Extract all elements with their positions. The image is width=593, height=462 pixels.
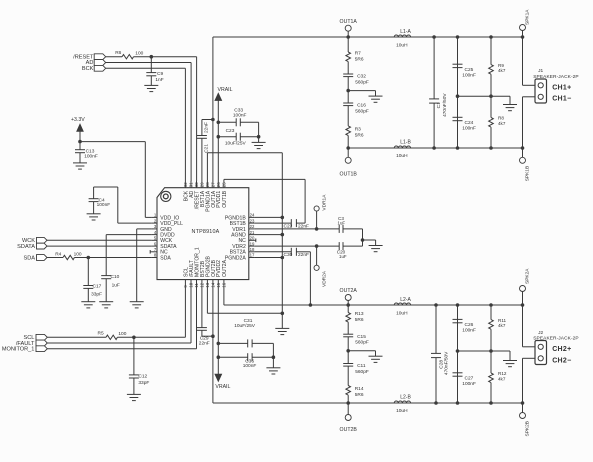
svg-text:10uH: 10uH <box>396 311 408 317</box>
svg-text:C1: C1 <box>436 102 442 108</box>
svg-text:R6: R6 <box>115 50 121 56</box>
svg-text:OUT1B: OUT1B <box>222 190 228 208</box>
svg-text:560pF: 560pF <box>355 369 369 375</box>
svg-text:C9: C9 <box>157 71 163 77</box>
svg-text:1uF: 1uF <box>339 254 347 259</box>
svg-text:100nF: 100nF <box>84 154 98 160</box>
svg-text:10uF/25V: 10uF/25V <box>225 141 247 147</box>
svg-text:100nF: 100nF <box>462 73 476 79</box>
svg-text:25: 25 <box>222 182 227 187</box>
svg-text:C17: C17 <box>93 284 102 290</box>
svg-text:4k7: 4k7 <box>498 376 506 381</box>
svg-text:C26: C26 <box>465 322 474 328</box>
svg-text:PGND2A: PGND2A <box>225 255 247 261</box>
svg-text:C27: C27 <box>465 375 474 381</box>
svg-text:100nF: 100nF <box>233 112 247 118</box>
svg-text:OUT1B: OUT1B <box>340 172 358 178</box>
svg-text:L2-B: L2-B <box>400 395 411 401</box>
svg-text:SPEAKER-JACK-2P: SPEAKER-JACK-2P <box>533 336 579 342</box>
svg-text:C25: C25 <box>465 67 474 73</box>
svg-text:R14: R14 <box>355 386 364 392</box>
svg-text:VDR2A: VDR2A <box>322 270 328 287</box>
svg-text:L2-A: L2-A <box>400 297 411 303</box>
svg-text:10uF/25V: 10uF/25V <box>234 323 256 329</box>
svg-text:21: 21 <box>250 230 255 235</box>
svg-text:560pF: 560pF <box>355 80 369 86</box>
svg-text:J1: J1 <box>538 68 543 74</box>
svg-text:100nF: 100nF <box>243 363 257 369</box>
svg-text:C32: C32 <box>357 74 366 80</box>
svg-text:100: 100 <box>118 331 126 337</box>
svg-text:30: 30 <box>194 182 199 187</box>
svg-text:OUT1A: OUT1A <box>340 19 358 25</box>
svg-text:C11: C11 <box>357 363 366 369</box>
svg-text:4k7: 4k7 <box>498 121 506 126</box>
svg-text:5R6: 5R6 <box>355 317 364 323</box>
svg-text:100: 100 <box>74 252 82 258</box>
svg-text:100nF: 100nF <box>462 328 476 334</box>
svg-text:C30: C30 <box>284 252 293 258</box>
svg-text:SDA: SDA <box>160 255 171 261</box>
svg-text:CH1+: CH1+ <box>552 85 571 92</box>
svg-text:C23: C23 <box>226 128 235 134</box>
svg-text:22: 22 <box>250 224 255 229</box>
svg-text:100nF: 100nF <box>462 381 476 387</box>
svg-text:C10: C10 <box>111 274 120 280</box>
svg-text:24: 24 <box>250 213 255 218</box>
svg-text:R5: R5 <box>98 330 104 336</box>
svg-text:L1-B: L1-B <box>400 140 411 146</box>
svg-text:1nF: 1nF <box>155 77 163 83</box>
svg-text:CH2−: CH2− <box>552 357 571 364</box>
svg-text:SPK1B: SPK1B <box>524 166 530 181</box>
svg-text:BCK: BCK <box>82 66 94 72</box>
svg-text:CH2+: CH2+ <box>552 346 571 353</box>
svg-text:470nF/50V: 470nF/50V <box>442 93 448 117</box>
svg-text:5R6: 5R6 <box>355 392 364 398</box>
svg-text:33pF: 33pF <box>91 291 102 297</box>
svg-text:470nF/50V: 470nF/50V <box>444 351 450 375</box>
svg-text:OUT2B: OUT2B <box>340 427 358 433</box>
svg-text:1uF: 1uF <box>112 283 120 289</box>
svg-text:R7: R7 <box>355 51 361 57</box>
svg-text:+3.3V: +3.3V <box>71 117 85 123</box>
svg-text:26: 26 <box>216 182 221 187</box>
svg-text:J2: J2 <box>538 330 543 336</box>
svg-text:10uH: 10uH <box>396 153 408 159</box>
svg-text:OUT2A: OUT2A <box>222 259 228 277</box>
svg-text:R13: R13 <box>355 311 364 317</box>
svg-text:SPK2A: SPK2A <box>524 268 530 284</box>
svg-text:100nF: 100nF <box>97 202 111 208</box>
svg-text:MONITOR_1: MONITOR_1 <box>2 347 35 353</box>
svg-text:22nF: 22nF <box>199 340 210 346</box>
svg-text:SDATA: SDATA <box>17 244 35 250</box>
svg-text:27: 27 <box>211 182 216 187</box>
svg-text:C24: C24 <box>465 120 474 126</box>
svg-text:23: 23 <box>250 218 255 223</box>
svg-text:VRAIL: VRAIL <box>218 87 233 93</box>
svg-text:17: 17 <box>250 253 255 258</box>
svg-text:SPEAKER-JACK-2P: SPEAKER-JACK-2P <box>533 74 579 80</box>
svg-text:22nF: 22nF <box>203 122 209 133</box>
svg-text:29: 29 <box>200 182 205 187</box>
svg-text:22nF: 22nF <box>298 252 309 258</box>
svg-text:SPK2B: SPK2B <box>524 421 530 436</box>
svg-text:4k7: 4k7 <box>498 68 506 73</box>
svg-text:VRAIL: VRAIL <box>215 384 230 390</box>
svg-text:32: 32 <box>183 182 188 187</box>
svg-text:10uH: 10uH <box>396 408 408 414</box>
svg-text:NTP8910A: NTP8910A <box>192 229 220 235</box>
svg-text:19: 19 <box>250 241 255 246</box>
svg-text:SPK1A: SPK1A <box>524 9 530 25</box>
svg-text:1uF: 1uF <box>338 220 346 225</box>
svg-text:560pF: 560pF <box>355 109 369 115</box>
svg-text:R3: R3 <box>355 127 361 133</box>
svg-text:VDR1A: VDR1A <box>322 194 328 211</box>
svg-text:R4: R4 <box>55 252 61 258</box>
svg-text:20: 20 <box>250 236 255 241</box>
svg-text:5R6: 5R6 <box>355 56 364 62</box>
svg-text:4k7: 4k7 <box>498 323 506 328</box>
svg-text:C12: C12 <box>138 373 147 379</box>
svg-text:33pF: 33pF <box>138 380 149 386</box>
svg-text:C16: C16 <box>357 103 366 109</box>
svg-text:OUT2A: OUT2A <box>340 288 358 294</box>
svg-text:10uH: 10uH <box>396 43 408 49</box>
svg-text:28: 28 <box>205 182 210 187</box>
svg-text:560pF: 560pF <box>355 340 369 346</box>
svg-text:C15: C15 <box>357 334 366 340</box>
svg-text:18: 18 <box>250 247 255 252</box>
svg-text:L1-A: L1-A <box>400 29 411 35</box>
svg-text:C21: C21 <box>204 144 210 153</box>
svg-text:31: 31 <box>189 182 194 187</box>
svg-text:SDA: SDA <box>23 255 35 261</box>
svg-text:100: 100 <box>135 50 143 56</box>
svg-text:5R6: 5R6 <box>355 133 364 139</box>
svg-text:100nF: 100nF <box>462 126 476 132</box>
svg-text:CH1−: CH1− <box>552 96 571 103</box>
